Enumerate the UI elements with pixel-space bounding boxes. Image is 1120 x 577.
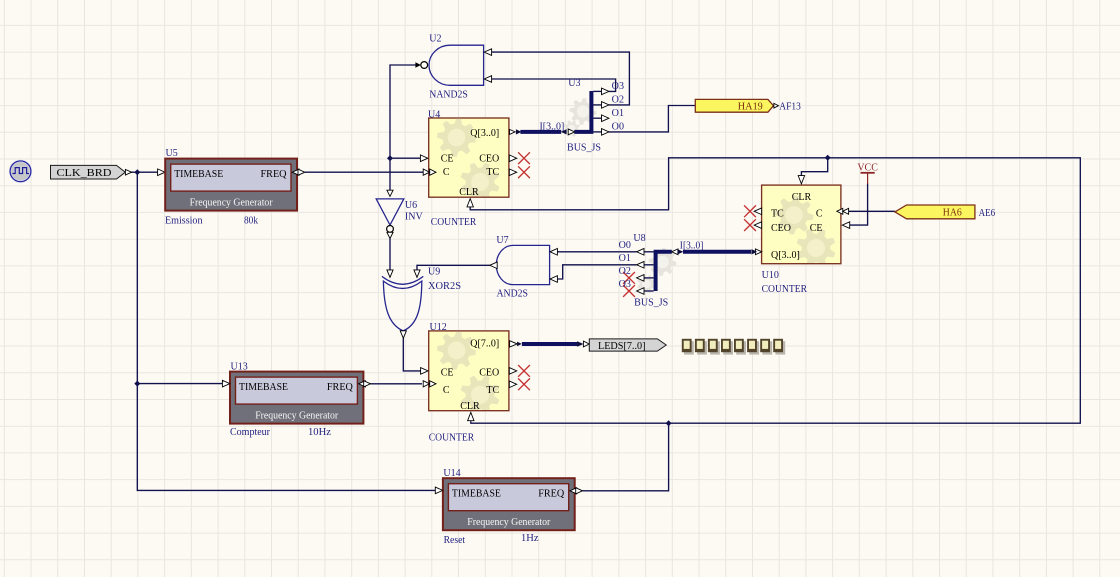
svg-text:AND2S: AND2S (497, 289, 529, 300)
pin arrows U14 FREQ out (570, 488, 577, 494)
pin arrow U6 output (387, 232, 393, 238)
pin arrow CLK_BRD out (125, 169, 131, 175)
bus end arrows at U10 (752, 249, 758, 254)
wire CLK_BRD trunk down to U13/U14 (137, 172, 435, 490)
svg-text:U10: U10 (762, 270, 779, 281)
and gate U7 (mirrored) (496, 245, 549, 284)
nand gate U2 (mirrored) (429, 45, 484, 85)
svg-text:TIMEBASE: TIMEBASE (452, 487, 501, 499)
pin arrow U4 TC + no-connect X (509, 169, 516, 176)
wire HA6 to U10 C (849, 210, 895, 212)
pin arrow U5 C in (158, 169, 165, 176)
svg-text:O2: O2 (612, 95, 624, 106)
svg-text:TIMEBASE: TIMEBASE (174, 168, 223, 180)
pin arrows U2 inputs (484, 49, 491, 56)
svg-text:I[3..0]: I[3..0] (680, 240, 704, 251)
junction CLR net to U10 (825, 155, 831, 161)
svg-text:TIMEBASE: TIMEBASE (239, 381, 288, 393)
pin arrows U10 C (double) (837, 208, 843, 214)
pin arrow U12 CLR (468, 412, 474, 420)
svg-text:Emission: Emission (165, 215, 203, 226)
svg-text:CE: CE (810, 223, 823, 234)
svg-text:U14: U14 (443, 468, 460, 479)
pin arrow HA19 (774, 103, 779, 108)
svg-text:Q[7..0]: Q[7..0] (470, 338, 499, 349)
wire NAND feedback to U4 CE (390, 157, 420, 159)
inverter U6 (pointing down) (376, 199, 404, 225)
wire U13 FREQ to U12 C (371, 383, 423, 385)
svg-text:COUNTER: COUNTER (762, 284, 808, 295)
wire U8 O1 to U7 input2 (557, 265, 636, 279)
svg-text:XOR2S: XOR2S (428, 281, 461, 292)
wire U7 AND output to XOR U9 input2 (417, 265, 490, 270)
svg-text:Q[3..0]: Q[3..0] (771, 250, 800, 261)
svg-text:COUNTER: COUNTER (429, 432, 475, 443)
pin arrows U3 O3..O0 (602, 88, 609, 95)
pin arrow U4 CLR (467, 199, 473, 207)
pin arrow U13 C in (222, 380, 229, 387)
pin arrow U12 Q[7..0] (510, 341, 518, 347)
U6 bubble (387, 226, 394, 233)
svg-text:C: C (443, 167, 450, 178)
pin arrows U9 inputs (387, 270, 393, 277)
svg-text:Compteur: Compteur (230, 427, 271, 438)
port HA6 (895, 205, 975, 219)
pin arrow U12 CE (421, 368, 428, 375)
svg-text:CLK_BRD: CLK_BRD (57, 168, 112, 179)
svg-text:BUS_JS: BUS_JS (567, 142, 601, 153)
wire U2 NAND output to INV U6 input (390, 65, 416, 190)
pin arrow U10 TC + X (754, 208, 761, 215)
wire U5 FREQ to U4 C (305, 171, 424, 173)
pin arrows U7 inputs (550, 249, 557, 256)
pin arrows U8 O0..O3 (637, 249, 644, 256)
svg-text:LEDS[7..0]: LEDS[7..0] (598, 341, 646, 352)
svg-text:CLR: CLR (459, 187, 479, 198)
wire XOR U9 output to U12 CE (403, 338, 420, 371)
svg-text:U3: U3 (568, 78, 580, 89)
svg-text:Q[3..0]: Q[3..0] (470, 128, 499, 139)
svg-text:O2: O2 (619, 266, 631, 277)
wire VCC to U10 CE (850, 184, 868, 226)
junction NAND output / U4 CE (387, 155, 393, 161)
wire INV U6 output to XOR U9 input1 (389, 239, 391, 271)
power VCC (857, 163, 878, 184)
bus splitter U3 gears (570, 98, 597, 125)
wire U3 O0 to HA19 (609, 106, 696, 132)
frequency generator U13 (230, 372, 363, 424)
bus splitter U8 gears (649, 248, 677, 276)
wire U8 O0 to U7 input1 (557, 251, 636, 253)
svg-text:C: C (816, 209, 823, 220)
pin arrows U13 FREQ out (359, 381, 366, 387)
svg-text:O3: O3 (612, 81, 624, 92)
svg-text:O3: O3 (619, 279, 631, 290)
svg-text:U4: U4 (428, 109, 440, 120)
svg-text:HA19: HA19 (738, 101, 763, 112)
junction at CLK_BRD tap (134, 169, 140, 175)
svg-text:U12: U12 (430, 322, 447, 333)
svg-text:O1: O1 (619, 253, 631, 264)
bus U8 spine (656, 252, 672, 291)
svg-text:AE6: AE6 (979, 208, 996, 219)
pin arrow U10 CE (842, 222, 849, 229)
svg-text:10Hz: 10Hz (308, 427, 332, 438)
svg-text:AF13: AF13 (779, 101, 801, 112)
svg-text:CEO: CEO (479, 367, 499, 378)
pin arrow U9 output (400, 331, 406, 338)
LED indicators x8 (682, 339, 785, 355)
xor gate U9 (pointing down) (382, 276, 423, 284)
port CLK_BRD (51, 165, 126, 179)
pin arrow U10 CEO + X (754, 222, 761, 229)
svg-text:TC: TC (486, 385, 499, 396)
counter U4 (429, 118, 509, 201)
svg-text:C: C (443, 385, 450, 396)
counter U10 (762, 185, 841, 267)
junction at U13 tap (134, 381, 140, 387)
frequency generator U5 (165, 159, 297, 211)
svg-text:O0: O0 (612, 122, 624, 133)
svg-text:CEO: CEO (479, 153, 499, 164)
wire branch junction to U10 CLR (801, 158, 827, 177)
pin arrow U12 CEO + X (509, 368, 516, 375)
wire U4 CLR net: long loop to U10 CLR and U12 CLR (470, 158, 1080, 423)
svg-text:Frequency Generator: Frequency Generator (190, 197, 274, 208)
bus U4.Q to U3 (I[3..0]) (520, 130, 561, 134)
svg-text:CLR: CLR (792, 192, 812, 203)
bus tap arrows LEDS (577, 341, 583, 347)
bus tap arrows U8 I[3..0] (672, 249, 678, 255)
pin arrow U12 TC + X (509, 381, 516, 388)
U8 stubs (644, 264, 654, 266)
pin arrow U6 input (387, 190, 393, 196)
svg-text:CLR: CLR (460, 401, 480, 412)
svg-text:O1: O1 (612, 108, 624, 119)
svg-text:Frequency Generator: Frequency Generator (255, 410, 339, 421)
svg-text:COUNTER: COUNTER (431, 217, 477, 228)
wire branch junction to U14 FREQ (583, 423, 669, 491)
pin arrows U4 C (double) (423, 169, 429, 175)
svg-text:U2: U2 (429, 33, 441, 44)
svg-text:1Hz: 1Hz (521, 533, 539, 544)
wire U2 top input from U3 O2 (492, 52, 630, 105)
wire U2 bottom input from U3 O3 (492, 79, 616, 91)
bus tap arrows I[3..0] (561, 129, 567, 134)
svg-text:U13: U13 (231, 362, 248, 373)
bus U12.Q to LEDS (522, 342, 577, 346)
pin arrows U12 C (double) (423, 381, 429, 387)
pin arrow U14 C in (435, 487, 442, 494)
nand U2 bubble (421, 62, 428, 69)
svg-text:U5: U5 (166, 148, 178, 159)
clock source icon (10, 161, 31, 182)
pin arrow U4 CEO + no-connect X (509, 155, 516, 162)
pin arrow U10 Q[3..0] (751, 249, 757, 254)
svg-text:TC: TC (771, 209, 784, 220)
svg-text:80k: 80k (244, 215, 258, 226)
svg-text:U6: U6 (405, 200, 417, 211)
pin arrow U7 output (490, 262, 497, 269)
counter U12 (429, 331, 509, 414)
svg-text:CE: CE (441, 153, 454, 164)
svg-text:CEO: CEO (771, 223, 791, 234)
pin arrow U4 CE (420, 155, 427, 162)
svg-text:FREQ: FREQ (261, 168, 287, 180)
wire branch to U13 C input (137, 383, 222, 385)
svg-text:Frequency Generator: Frequency Generator (467, 517, 551, 528)
svg-text:FREQ: FREQ (538, 487, 564, 499)
svg-text:FREQ: FREQ (327, 381, 353, 393)
pin arrow U2 output (415, 62, 421, 67)
pin arrow U10 CLR (798, 176, 804, 184)
no-connect X on U8 O2 O3 (623, 272, 635, 284)
svg-text:TC: TC (486, 167, 499, 178)
U3 output stubs (593, 90, 601, 92)
svg-text:I[3..0]: I[3..0] (540, 122, 565, 133)
junction CLR net to U14 (666, 420, 672, 426)
svg-text:HA6: HA6 (943, 208, 962, 219)
svg-text:Reset: Reset (444, 535, 466, 546)
svg-text:O0: O0 (619, 240, 631, 251)
pin arrows U5 FREQ out (292, 169, 299, 175)
svg-text:NAND2S: NAND2S (429, 90, 468, 101)
svg-text:INV: INV (405, 212, 424, 223)
port HA19 (695, 99, 773, 112)
port LEDS[7..0] (589, 339, 666, 352)
svg-text:BUS_JS: BUS_JS (634, 298, 668, 309)
svg-text:U8: U8 (633, 233, 645, 244)
svg-text:U9: U9 (428, 267, 440, 278)
wire CLK_BRD to U5 (125, 171, 157, 173)
frequency generator U14 (443, 478, 575, 530)
pin arrow U4 Q[3..0] (510, 129, 516, 134)
svg-text:U7: U7 (496, 235, 508, 246)
svg-text:CE: CE (441, 367, 454, 378)
